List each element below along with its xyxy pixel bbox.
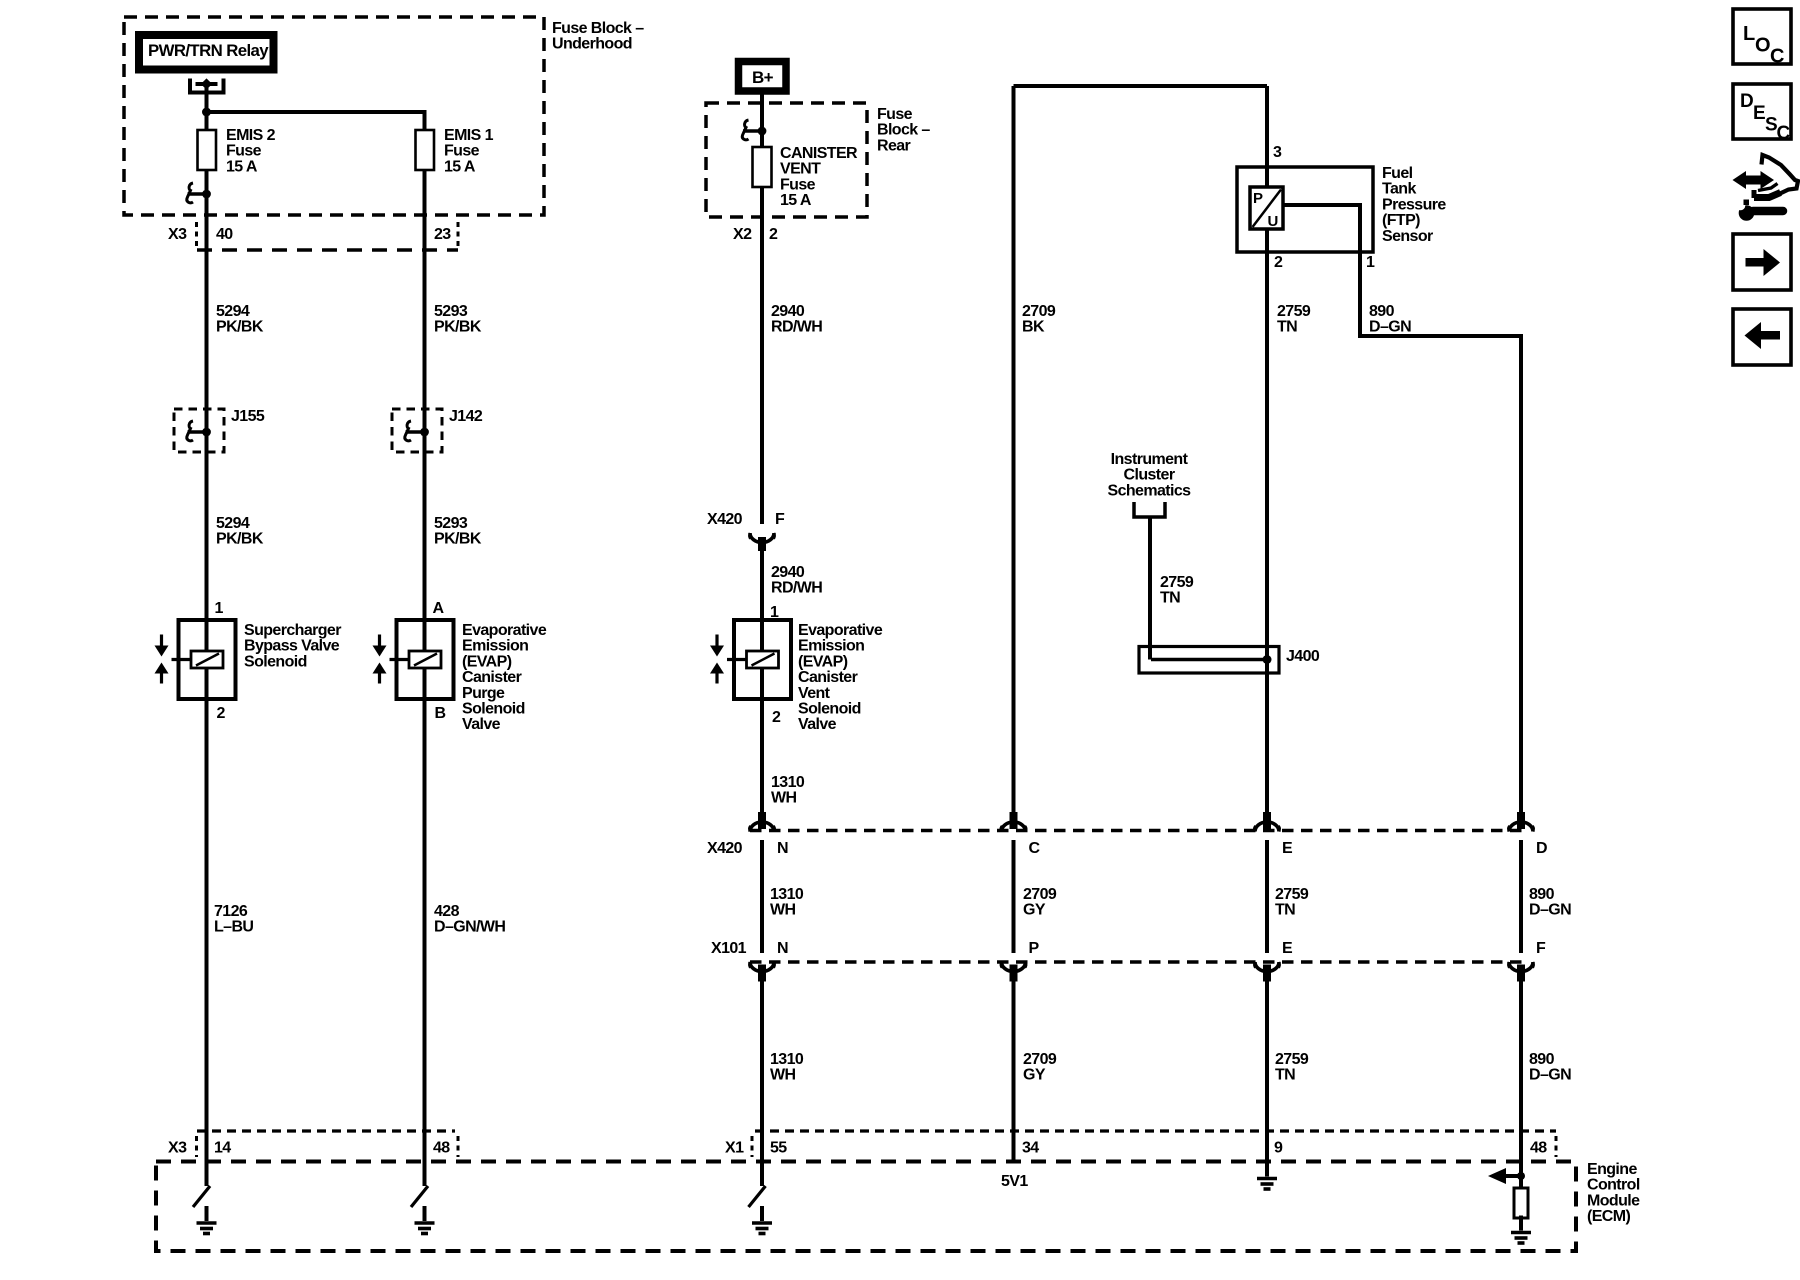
connector row X101 dashed line bbox=[750, 960, 1526, 964]
connector X3 bottom row bbox=[197, 1129, 455, 1132]
wire vent solenoid to X420 N bbox=[760, 668, 764, 812]
fuse EMIS 1 bbox=[416, 130, 435, 170]
svg-text:N: N bbox=[777, 840, 788, 857]
svg-text:L: L bbox=[1743, 23, 1755, 45]
svg-text:X420: X420 bbox=[707, 840, 743, 857]
svg-text:J142: J142 bbox=[449, 408, 483, 425]
svg-text:890: 890 bbox=[1529, 1051, 1555, 1068]
svg-text:C: C bbox=[1029, 840, 1041, 857]
svg-text:P: P bbox=[1029, 940, 1040, 957]
svg-text:E: E bbox=[1282, 940, 1293, 957]
svg-text:Fuse: Fuse bbox=[226, 143, 262, 160]
svg-text:Fuse: Fuse bbox=[780, 176, 816, 193]
svg-text:2709: 2709 bbox=[1022, 303, 1056, 320]
X420 pin E bbox=[1263, 812, 1271, 829]
svg-text:48: 48 bbox=[433, 1140, 450, 1157]
svg-text:WH: WH bbox=[770, 902, 796, 919]
svg-text:Vent: Vent bbox=[798, 685, 831, 702]
svg-text:F: F bbox=[1536, 940, 1546, 957]
svg-text:23: 23 bbox=[434, 226, 451, 243]
wire 2709 top run bbox=[1014, 84, 1268, 88]
svg-text:Solenoid: Solenoid bbox=[244, 653, 307, 670]
svg-text:Emission: Emission bbox=[462, 638, 528, 655]
wire branch to EMIS 1 fuse bbox=[207, 112, 425, 130]
svg-text:X1: X1 bbox=[725, 1140, 744, 1157]
terminal below EMIS 2 fuse bbox=[187, 183, 211, 203]
splice J142 bbox=[392, 409, 442, 452]
svg-text:Control: Control bbox=[1587, 1177, 1640, 1194]
svg-text:Solenoid: Solenoid bbox=[462, 701, 525, 718]
svg-text:PK/BK: PK/BK bbox=[216, 319, 264, 336]
splice pack J400 bbox=[1139, 647, 1279, 674]
svg-text:GY: GY bbox=[1023, 1067, 1046, 1084]
svg-text:Schematics: Schematics bbox=[1108, 482, 1192, 499]
svg-text:34: 34 bbox=[1022, 1140, 1039, 1157]
canister vent fuse bbox=[753, 147, 772, 187]
svg-text:C: C bbox=[1770, 46, 1784, 68]
fuse EMIS 2 bbox=[198, 130, 217, 170]
ground pin 48 right bbox=[1511, 1216, 1531, 1244]
svg-text:5293: 5293 bbox=[434, 515, 468, 532]
svg-text:Sensor: Sensor bbox=[1382, 228, 1433, 245]
svg-text:F: F bbox=[775, 511, 785, 528]
svg-text:B: B bbox=[435, 705, 446, 722]
ECM dashed box bbox=[156, 1162, 1576, 1252]
wire resistor to ground bbox=[1519, 1218, 1523, 1230]
FTP P/U transducer bbox=[1250, 187, 1283, 229]
svg-text:C: C bbox=[1777, 123, 1791, 144]
svg-text:X420: X420 bbox=[707, 511, 743, 528]
svg-text:Underhood: Underhood bbox=[552, 36, 632, 53]
wires X101 to X1 bbox=[760, 981, 764, 1186]
ECM driver pin 14 bbox=[193, 1186, 210, 1207]
svg-text:Pressure: Pressure bbox=[1382, 196, 1446, 213]
svg-text:CANISTER: CANISTER bbox=[780, 145, 858, 162]
wire supercharger solenoid to ECM bbox=[205, 668, 209, 1186]
icon back arrow box bbox=[1733, 309, 1791, 365]
wire FTP pin 3 bbox=[1265, 86, 1269, 188]
svg-text:EMIS 2: EMIS 2 bbox=[226, 127, 276, 144]
svg-text:(FTP): (FTP) bbox=[1382, 212, 1420, 229]
svg-text:O: O bbox=[1755, 35, 1770, 57]
FTP sensor box bbox=[1237, 167, 1373, 252]
svg-text:D–GN: D–GN bbox=[1369, 319, 1411, 336]
wire EMIS1 fuse down to solenoid bbox=[423, 170, 427, 651]
svg-text:VENT: VENT bbox=[780, 161, 821, 178]
svg-text:Evaporative: Evaporative bbox=[798, 622, 883, 639]
svg-text:48: 48 bbox=[1530, 1140, 1547, 1157]
wire instrument cluster to J400 bbox=[1148, 517, 1152, 660]
wire EMIS2 fuse down to solenoid bbox=[205, 170, 209, 651]
svg-text:PWR/TRN Relay: PWR/TRN Relay bbox=[148, 42, 269, 60]
svg-text:15 A: 15 A bbox=[444, 158, 476, 175]
svg-text:5294: 5294 bbox=[216, 303, 250, 320]
svg-text:J400: J400 bbox=[1286, 648, 1320, 665]
svg-text:Valve: Valve bbox=[798, 716, 837, 733]
svg-text:2: 2 bbox=[772, 709, 781, 726]
svg-text:PK/BK: PK/BK bbox=[434, 531, 482, 548]
svg-text:Canister: Canister bbox=[462, 669, 522, 686]
svg-text:1: 1 bbox=[215, 600, 224, 617]
ECM driver pin 48 left bbox=[411, 1186, 428, 1207]
B+ power box bbox=[739, 62, 787, 92]
svg-text:2940: 2940 bbox=[771, 303, 805, 320]
svg-text:5293: 5293 bbox=[434, 303, 468, 320]
icon connector tools bbox=[1740, 176, 1766, 185]
svg-text:U: U bbox=[1268, 213, 1278, 230]
ECM pin 48 arrow bbox=[1506, 1174, 1521, 1178]
ground pin 55 bbox=[752, 1206, 772, 1234]
instrument cluster bracket bbox=[1134, 502, 1165, 517]
svg-text:9: 9 bbox=[1274, 1140, 1283, 1157]
svg-text:E: E bbox=[1282, 840, 1293, 857]
fuse block underhood dashed box bbox=[124, 17, 544, 215]
svg-text:1: 1 bbox=[1366, 254, 1375, 271]
junction node bbox=[202, 108, 211, 117]
svg-text:X3: X3 bbox=[168, 1140, 187, 1157]
svg-text:D: D bbox=[1740, 91, 1753, 112]
svg-text:Tank: Tank bbox=[1382, 181, 1416, 198]
wire B+ to canister vent fuse bbox=[760, 94, 764, 147]
svg-text:WH: WH bbox=[770, 1067, 796, 1084]
svg-text:Supercharger: Supercharger bbox=[244, 622, 341, 639]
svg-text:(EVAP): (EVAP) bbox=[462, 653, 512, 670]
svg-text:2: 2 bbox=[217, 705, 226, 722]
svg-text:Solenoid: Solenoid bbox=[798, 701, 861, 718]
wire FTP pin 2 (2759) down bbox=[1265, 229, 1269, 812]
svg-text:WH: WH bbox=[771, 790, 797, 807]
svg-text:1310: 1310 bbox=[770, 1051, 804, 1068]
X420 pin N bbox=[758, 812, 766, 829]
svg-text:Engine: Engine bbox=[1587, 1161, 1637, 1178]
svg-text:PK/BK: PK/BK bbox=[216, 531, 264, 548]
svg-text:S: S bbox=[1765, 115, 1777, 136]
svg-text:TN: TN bbox=[1275, 902, 1295, 919]
svg-text:1310: 1310 bbox=[770, 886, 804, 903]
icon LOC box bbox=[1733, 9, 1791, 64]
svg-text:P: P bbox=[1253, 190, 1263, 207]
wire relay to junction bbox=[205, 84, 209, 130]
svg-text:Instrument: Instrument bbox=[1111, 451, 1189, 468]
relay contact bbox=[190, 79, 224, 93]
svg-text:Emission: Emission bbox=[798, 638, 864, 655]
wires X420 to X101 bbox=[760, 840, 764, 953]
svg-text:15 A: 15 A bbox=[226, 158, 258, 175]
X420 pin D bbox=[1517, 812, 1525, 829]
svg-text:RD/WH: RD/WH bbox=[771, 580, 822, 597]
svg-text:PK/BK: PK/BK bbox=[434, 319, 482, 336]
svg-text:J155: J155 bbox=[231, 408, 265, 425]
svg-text:Cluster: Cluster bbox=[1124, 467, 1175, 484]
svg-text:Fuel: Fuel bbox=[1382, 165, 1413, 182]
X101 pin P bbox=[1001, 962, 1026, 972]
svg-text:2709: 2709 bbox=[1023, 886, 1057, 903]
svg-text:B+: B+ bbox=[752, 68, 774, 87]
svg-text:E: E bbox=[1753, 103, 1765, 124]
svg-text:3: 3 bbox=[1273, 144, 1282, 161]
svg-text:L–BU: L–BU bbox=[214, 919, 253, 936]
svg-text:Bypass Valve: Bypass Valve bbox=[244, 638, 340, 655]
svg-text:2759: 2759 bbox=[1275, 886, 1309, 903]
icon DESC box bbox=[1733, 84, 1791, 139]
svg-text:N: N bbox=[777, 940, 788, 957]
svg-text:RD/WH: RD/WH bbox=[771, 319, 822, 336]
svg-text:5294: 5294 bbox=[216, 515, 250, 532]
svg-text:D–GN: D–GN bbox=[1529, 1067, 1571, 1084]
svg-text:428: 428 bbox=[434, 903, 460, 920]
svg-text:GY: GY bbox=[1023, 902, 1046, 919]
X101 pin E bbox=[1254, 962, 1279, 972]
svg-text:Fuse Block –: Fuse Block – bbox=[552, 20, 644, 37]
resistor in ECM bbox=[1514, 1188, 1528, 1218]
svg-text:40: 40 bbox=[216, 226, 233, 243]
svg-text:D–GN/WH: D–GN/WH bbox=[434, 919, 505, 936]
svg-text:TN: TN bbox=[1275, 1067, 1295, 1084]
svg-text:X3: X3 bbox=[168, 226, 187, 243]
svg-text:X2: X2 bbox=[733, 226, 752, 243]
svg-text:890: 890 bbox=[1369, 303, 1395, 320]
svg-text:X101: X101 bbox=[711, 940, 747, 957]
connector row X420 dashed line bbox=[750, 829, 1526, 833]
splice J155 bbox=[174, 409, 224, 452]
ground pin 48 left bbox=[415, 1206, 435, 1234]
svg-text:15 A: 15 A bbox=[780, 192, 812, 209]
fuse block rear dashed box bbox=[706, 103, 867, 217]
svg-text:55: 55 bbox=[770, 1140, 787, 1157]
X101 pin F bbox=[1508, 962, 1533, 972]
svg-text:Evaporative: Evaporative bbox=[462, 622, 547, 639]
svg-text:7126: 7126 bbox=[214, 903, 248, 920]
svg-text:TN: TN bbox=[1160, 590, 1180, 607]
ground pin 14 bbox=[197, 1206, 217, 1234]
svg-text:890: 890 bbox=[1529, 886, 1555, 903]
svg-text:14: 14 bbox=[214, 1140, 231, 1157]
ground pin 9 bbox=[1257, 1162, 1277, 1190]
svg-text:BK: BK bbox=[1022, 319, 1045, 336]
svg-text:1310: 1310 bbox=[771, 774, 805, 791]
svg-text:A: A bbox=[433, 600, 445, 617]
svg-text:(ECM): (ECM) bbox=[1587, 1208, 1630, 1225]
ECM driver pin 55 bbox=[749, 1186, 766, 1207]
svg-text:2759: 2759 bbox=[1275, 1051, 1309, 1068]
wire canister vent fuse to X420 F bbox=[760, 187, 764, 524]
X101 pin N bbox=[749, 962, 774, 972]
svg-text:2759: 2759 bbox=[1160, 574, 1194, 591]
svg-text:D–GN: D–GN bbox=[1529, 902, 1571, 919]
svg-text:TN: TN bbox=[1277, 319, 1297, 336]
svg-text:2940: 2940 bbox=[771, 564, 805, 581]
wire purge solenoid to ECM bbox=[423, 668, 427, 1186]
icon forward arrow box bbox=[1733, 234, 1791, 290]
svg-text:Block –: Block – bbox=[877, 122, 930, 139]
svg-text:Valve: Valve bbox=[462, 716, 501, 733]
svg-text:(EVAP): (EVAP) bbox=[798, 653, 848, 670]
svg-text:Fuse: Fuse bbox=[877, 106, 913, 123]
svg-text:Fuse: Fuse bbox=[444, 143, 480, 160]
svg-text:2: 2 bbox=[1274, 254, 1283, 271]
svg-text:2709: 2709 bbox=[1023, 1051, 1057, 1068]
wire X420 F to vent solenoid bbox=[760, 551, 764, 651]
connector X3 top row bbox=[197, 248, 458, 252]
terminal in rear fuse block bbox=[742, 120, 766, 140]
svg-text:Canister: Canister bbox=[798, 669, 858, 686]
svg-text:2759: 2759 bbox=[1277, 303, 1311, 320]
X420 pin C bbox=[1010, 812, 1018, 829]
wire FTP pin 1 (890) jog bbox=[1283, 205, 1521, 812]
PWR/TRN Relay box bbox=[139, 35, 274, 70]
svg-text:EMIS 1: EMIS 1 bbox=[444, 127, 494, 144]
svg-text:Purge: Purge bbox=[462, 685, 505, 702]
svg-text:Rear: Rear bbox=[877, 137, 911, 154]
connector X1 row bbox=[755, 1129, 1556, 1132]
svg-text:2: 2 bbox=[769, 226, 778, 243]
svg-text:Module: Module bbox=[1587, 1192, 1640, 1209]
svg-text:D: D bbox=[1536, 840, 1547, 857]
svg-text:5V1: 5V1 bbox=[1001, 1173, 1028, 1190]
